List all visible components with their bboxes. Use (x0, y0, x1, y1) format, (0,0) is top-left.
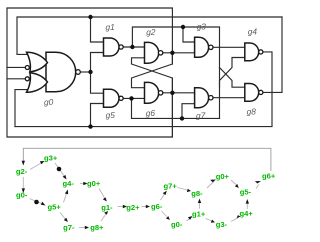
svg-text:g8+: g8+ (90, 223, 104, 232)
svg-text:g8-: g8- (191, 189, 203, 198)
svg-text:g7-: g7- (63, 223, 75, 232)
svg-text:g6: g6 (146, 108, 156, 118)
svg-text:g5-: g5- (240, 188, 252, 197)
svg-text:g1: g1 (106, 22, 115, 32)
svg-text:g2: g2 (146, 27, 156, 37)
svg-text:g3-: g3- (216, 220, 228, 229)
svg-text:g6+: g6+ (262, 172, 276, 181)
svg-text:g1+: g1+ (192, 210, 206, 219)
svg-text:g8: g8 (247, 107, 257, 117)
svg-text:g0+: g0+ (216, 172, 230, 181)
svg-text:g7: g7 (196, 111, 206, 121)
svg-text:g0: g0 (44, 97, 54, 107)
svg-text:g0-: g0- (171, 220, 183, 229)
svg-text:g2+: g2+ (126, 203, 140, 212)
svg-text:g3: g3 (197, 22, 207, 32)
svg-text:g0-: g0- (16, 191, 28, 200)
svg-text:g4: g4 (248, 27, 258, 37)
svg-text:g1-: g1- (101, 203, 113, 212)
svg-text:g4-: g4- (63, 179, 75, 188)
svg-text:g7+: g7+ (164, 182, 178, 191)
svg-text:g0+: g0+ (87, 179, 101, 188)
svg-text:g2-: g2- (16, 167, 28, 176)
svg-text:g3+: g3+ (44, 154, 58, 163)
svg-text:g5+: g5+ (48, 203, 62, 212)
svg-text:g4+: g4+ (240, 209, 254, 218)
svg-text:g5: g5 (106, 110, 116, 120)
svg-text:g6-: g6- (151, 202, 163, 211)
